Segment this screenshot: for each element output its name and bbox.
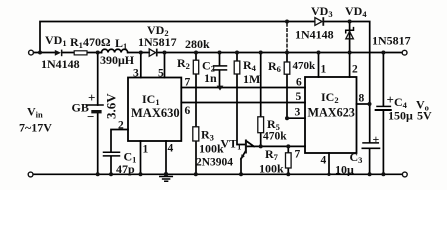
- svg-text:VD4: VD4: [345, 4, 367, 19]
- svg-text:5: 5: [296, 91, 302, 103]
- svg-text:L1: L1: [115, 36, 127, 51]
- svg-text:1M: 1M: [243, 72, 260, 86]
- svg-text:R2: R2: [177, 56, 190, 71]
- svg-text:10μ: 10μ: [335, 163, 354, 177]
- svg-text:+: +: [387, 92, 394, 107]
- svg-text:3: 3: [295, 107, 301, 119]
- svg-text:R3: R3: [201, 128, 214, 143]
- svg-text:470k: 470k: [263, 131, 287, 143]
- svg-text:R4: R4: [243, 58, 257, 73]
- svg-text:5V: 5V: [417, 109, 432, 123]
- svg-text:1: 1: [321, 64, 327, 76]
- svg-text:4: 4: [168, 143, 174, 155]
- svg-text:47p: 47p: [116, 162, 135, 176]
- svg-text:1n: 1n: [204, 71, 217, 85]
- svg-text:2: 2: [118, 120, 124, 132]
- svg-text:1N5817: 1N5817: [138, 35, 177, 49]
- svg-text:4: 4: [321, 155, 327, 167]
- svg-text:7: 7: [295, 149, 301, 161]
- svg-text:3.6V: 3.6V: [104, 93, 119, 119]
- svg-text:470k: 470k: [293, 60, 317, 72]
- svg-text:5: 5: [158, 68, 164, 80]
- svg-text:150μ: 150μ: [388, 109, 413, 123]
- svg-text:1N5817: 1N5817: [372, 34, 411, 48]
- svg-text:MAX623: MAX623: [308, 106, 355, 120]
- svg-text:2N3904: 2N3904: [196, 157, 233, 169]
- svg-text:−: −: [87, 109, 94, 124]
- svg-text:7: 7: [185, 77, 191, 89]
- svg-text:1: 1: [143, 144, 149, 156]
- svg-text:MAX630: MAX630: [131, 106, 180, 120]
- svg-text:+: +: [373, 132, 380, 146]
- svg-text:VD3: VD3: [311, 4, 333, 19]
- svg-text:R7: R7: [265, 147, 279, 162]
- svg-text:7~17V: 7~17V: [19, 121, 52, 135]
- svg-text:1N4148: 1N4148: [295, 28, 334, 42]
- svg-text:280k: 280k: [185, 37, 210, 51]
- svg-text:6: 6: [185, 105, 191, 117]
- svg-text:R1: R1: [70, 35, 83, 50]
- svg-text:100k: 100k: [259, 162, 284, 176]
- svg-text:VT1: VT1: [221, 137, 242, 152]
- svg-text:2: 2: [352, 64, 358, 76]
- svg-text:390μH: 390μH: [100, 53, 135, 67]
- svg-text:+: +: [88, 90, 95, 105]
- svg-text:8: 8: [359, 93, 365, 105]
- svg-text:R6: R6: [268, 59, 281, 74]
- svg-text:Vin: Vin: [27, 105, 43, 120]
- svg-text:IC2: IC2: [321, 90, 339, 105]
- svg-text:3: 3: [133, 68, 139, 80]
- svg-text:1N4148: 1N4148: [41, 57, 80, 71]
- svg-text:VD1: VD1: [45, 33, 67, 48]
- svg-text:IC1: IC1: [142, 92, 160, 107]
- svg-text:470Ω: 470Ω: [83, 35, 111, 49]
- svg-text:6: 6: [296, 77, 302, 89]
